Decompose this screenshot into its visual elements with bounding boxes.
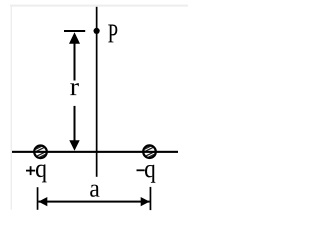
dimension a: right arrowhead bbox=[141, 197, 150, 206]
charge -q: hatched circle bbox=[143, 143, 157, 160]
dimension a: line bbox=[38, 201, 149, 203]
dimension r: lower line segment bbox=[74, 106, 76, 142]
label P bbox=[108, 24, 117, 42]
wire: vertical bisector line bbox=[96, 7, 98, 177]
dimension r: top tick bar bbox=[64, 30, 85, 32]
dimension r: upper line segment bbox=[74, 43, 76, 81]
wire: horizontal dipole axis bbox=[12, 151, 178, 153]
dimension a: left arrowhead bbox=[38, 197, 47, 206]
label +q : q bbox=[36, 164, 47, 182]
dimension a: right tick bbox=[150, 187, 152, 210]
label +q : plus sign bbox=[26, 166, 35, 175]
dimension a: left tick bbox=[37, 187, 39, 210]
faint left border artifact bbox=[11, 5, 12, 210]
faint top border artifact bbox=[10, 5, 188, 7]
label r bbox=[70, 83, 78, 95]
node P dot bbox=[94, 28, 100, 34]
label -q : q bbox=[145, 165, 155, 183]
charge +q: hatched circle bbox=[34, 143, 48, 160]
dimension r: lower arrowhead bbox=[69, 140, 79, 151]
label a bbox=[90, 185, 99, 197]
label -q : minus sign bbox=[137, 169, 145, 171]
dimension r: upper arrowhead bbox=[69, 32, 80, 44]
